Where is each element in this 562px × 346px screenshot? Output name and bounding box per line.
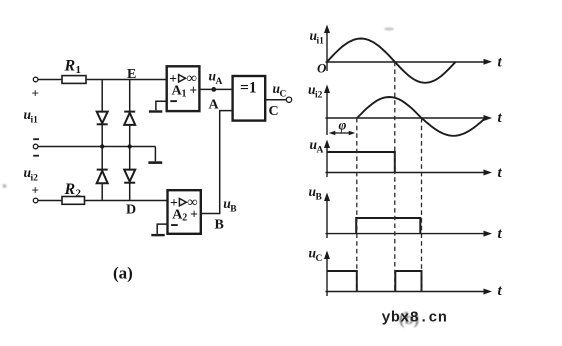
svg-text:C: C	[269, 104, 279, 119]
svg-text:φ: φ	[339, 118, 347, 133]
svg-text:A: A	[317, 146, 324, 156]
svg-text:2: 2	[182, 212, 187, 223]
svg-text:O: O	[317, 61, 327, 76]
svg-text:=1: =1	[240, 80, 257, 97]
svg-text:B: B	[215, 218, 224, 233]
svg-text:(a): (a)	[113, 264, 133, 283]
svg-text:2: 2	[76, 188, 82, 200]
svg-text:i1: i1	[317, 37, 325, 47]
svg-text:R: R	[64, 181, 76, 198]
svg-text:i2: i2	[31, 174, 39, 184]
svg-text:A: A	[209, 98, 220, 113]
svg-text:D: D	[126, 203, 136, 218]
svg-text:B: B	[316, 193, 323, 203]
svg-text:i2: i2	[315, 91, 323, 101]
svg-text:i1: i1	[31, 116, 39, 126]
svg-text:C: C	[280, 90, 287, 100]
svg-text:R: R	[64, 58, 76, 75]
svg-text:ybx8.cn: ybx8.cn	[382, 310, 448, 327]
svg-text:A: A	[216, 77, 223, 87]
svg-text:+: +	[32, 86, 39, 101]
svg-text:E: E	[127, 67, 136, 82]
svg-text:+: +	[32, 183, 39, 198]
svg-text:B: B	[230, 205, 237, 215]
svg-text:C: C	[316, 254, 323, 264]
svg-text:1: 1	[182, 89, 187, 100]
svg-text:+: +	[190, 83, 198, 98]
svg-text:+: +	[190, 206, 198, 221]
svg-text:1: 1	[76, 64, 82, 76]
